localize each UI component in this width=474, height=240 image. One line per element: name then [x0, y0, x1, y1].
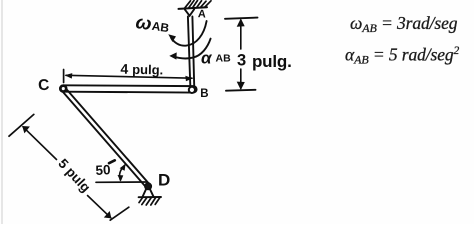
svg-text:50: 50 — [95, 162, 111, 178]
50 deg angle arc — [120, 165, 125, 180]
3 pulg top arrowhead — [237, 18, 245, 26]
ground hatch marks at D — [139, 198, 160, 205]
joint C — [60, 86, 66, 92]
svg-text:C: C — [38, 77, 50, 95]
omega_AB curved arrow arc — [171, 21, 206, 46]
svg-text:3: 3 — [237, 52, 246, 70]
svg-text:B: B — [200, 88, 208, 100]
ceiling hatch marks — [185, 1, 212, 9]
ground line at D — [139, 196, 161, 198]
left arrowhead — [65, 73, 73, 79]
link CD bar (two parallel lines) — [65, 88, 150, 185]
alpha arrowhead — [169, 52, 176, 59]
svg-text:pulg.: pulg. — [252, 52, 292, 71]
left scan edge line — [1, 0, 3, 224]
angle arc top arrowhead — [120, 164, 126, 171]
50 degree mark — [109, 160, 115, 163]
ceiling line of fixed support at A — [179, 7, 208, 9]
joint D — [145, 183, 152, 190]
svg-text:α: α — [201, 49, 213, 68]
svg-text:AB: AB — [216, 53, 232, 65]
joint B — [189, 87, 195, 93]
5 pulg dim line lower segment — [88, 196, 111, 218]
5 pulg bottom arrowhead — [104, 211, 112, 218]
pin triangle at A — [185, 9, 194, 16]
50 deg reference line at D — [96, 181, 147, 183]
3 pulg bottom arrowhead — [237, 82, 245, 90]
5 pulg top arrowhead — [22, 126, 30, 133]
link AB (two parallel vertical lines) — [188, 17, 190, 86]
4 pulg dimension: left tick — [63, 70, 65, 83]
5 pulg dimension: top tick — [9, 114, 34, 136]
3 pulg vertical dim line — [240, 20, 242, 49]
4 pulg dimension line — [66, 75, 192, 78]
svg-text:D: D — [158, 171, 170, 190]
alpha_AB handwritten label — [201, 49, 231, 68]
alpha_AB curved arrow arc — [173, 39, 211, 59]
svg-text:A: A — [198, 8, 207, 20]
3 pulg bottom tick — [226, 89, 256, 92]
5 pulg dim line upper segment — [23, 127, 57, 160]
omega_AB handwritten label — [134, 12, 171, 38]
svg-text:4 pulg.: 4 pulg. — [120, 61, 163, 78]
angle arc bottom arrowhead — [118, 175, 124, 182]
3 pulg dimension: top tick — [225, 18, 258, 19]
svg-text:AB: AB — [151, 19, 170, 35]
link CB bar — [60, 85, 197, 92]
right arrowhead — [185, 76, 193, 82]
5 pulg bottom tick — [110, 207, 129, 220]
omega arrowhead — [168, 34, 176, 42]
support legs at D — [143, 189, 147, 197]
